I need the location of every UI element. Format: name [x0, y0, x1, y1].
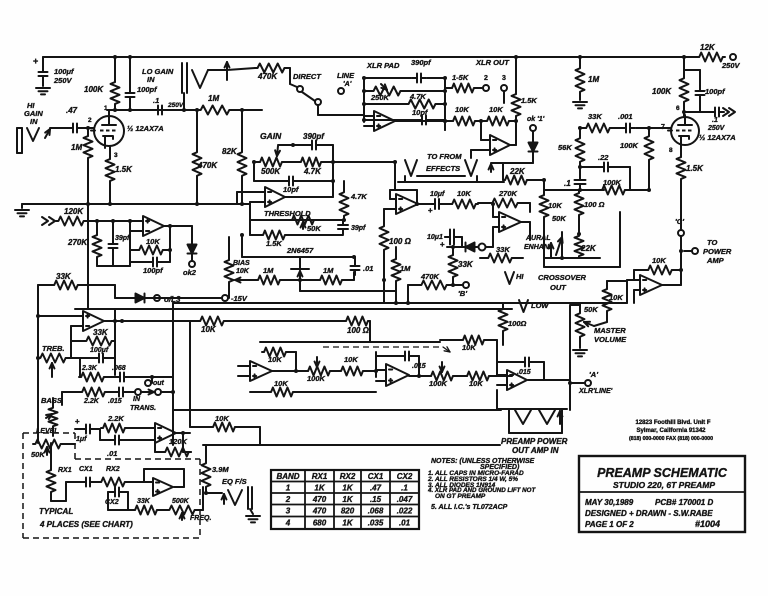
svg-text:10K: 10K — [469, 379, 483, 388]
svg-text:1K: 1K — [342, 484, 353, 493]
svg-text:4.7K: 4.7K — [303, 167, 322, 176]
svg-text:+: + — [75, 417, 80, 426]
svg-text:390pf: 390pf — [411, 58, 432, 67]
svg-text:1M: 1M — [400, 264, 411, 273]
svg-text:1M: 1M — [263, 266, 274, 275]
svg-text:10K: 10K — [548, 201, 562, 210]
svg-text:RX2: RX2 — [106, 466, 120, 473]
svg-text:1M: 1M — [71, 143, 82, 152]
svg-text:BIAS: BIAS — [233, 260, 250, 267]
svg-text:OUT AMP IN: OUT AMP IN — [512, 446, 559, 455]
svg-text:100pf: 100pf — [143, 266, 164, 275]
svg-text:BAND: BAND — [276, 472, 299, 481]
svg-text:2.2K: 2.2K — [83, 398, 100, 405]
svg-text:3: 3 — [286, 507, 291, 516]
svg-text:1.5K: 1.5K — [686, 164, 704, 173]
svg-text:10K: 10K — [201, 325, 217, 334]
svg-text:10K: 10K — [268, 355, 282, 364]
svg-text:DIRECT: DIRECT — [293, 72, 322, 81]
svg-text:out: out — [153, 380, 165, 387]
svg-text:AURAL: AURAL — [525, 235, 551, 242]
svg-text:STUDIO 220, 6T PREAMP: STUDIO 220, 6T PREAMP — [613, 480, 715, 490]
svg-text:IN: IN — [133, 396, 141, 403]
svg-text:10K: 10K — [344, 355, 358, 364]
svg-text:AMP: AMP — [706, 256, 725, 265]
svg-text:270K: 270K — [498, 189, 518, 198]
svg-text:820: 820 — [341, 507, 355, 516]
svg-text:120K: 120K — [64, 207, 84, 216]
svg-text:250K: 250K — [370, 93, 390, 102]
svg-text:CROSSOVER: CROSSOVER — [538, 273, 587, 282]
svg-text:10K: 10K — [274, 379, 288, 388]
svg-text:10K: 10K — [455, 105, 469, 114]
svg-text:BASS: BASS — [41, 396, 62, 405]
svg-text:.1: .1 — [564, 179, 571, 188]
svg-text:-15V: -15V — [231, 294, 248, 303]
svg-text:PCB# 170001 D: PCB# 170001 D — [655, 498, 713, 507]
svg-text:250V: 250V — [721, 61, 741, 70]
svg-text:1K: 1K — [342, 495, 353, 504]
svg-text:Sylmar, California 91342: Sylmar, California 91342 — [636, 428, 706, 434]
svg-text:50K: 50K — [584, 305, 598, 314]
svg-text:12823 Foothill Blvd. Unit F: 12823 Foothill Blvd. Unit F — [635, 420, 710, 426]
svg-text:2.3K: 2.3K — [81, 365, 98, 372]
svg-text:DESIGNED + DRAWN - S.W.RABE: DESIGNED + DRAWN - S.W.RABE — [585, 509, 713, 518]
svg-text:1μf: 1μf — [76, 436, 87, 443]
svg-text:100K: 100K — [307, 374, 326, 383]
svg-text:TYPICAL: TYPICAL — [39, 507, 73, 516]
svg-text:.01: .01 — [399, 519, 411, 528]
svg-text:RX2: RX2 — [340, 472, 356, 481]
svg-text:ENHAN.: ENHAN. — [524, 244, 551, 251]
svg-text:100 Ω: 100 Ω — [347, 326, 370, 335]
svg-text:XLR'LINE': XLR'LINE' — [578, 388, 613, 395]
svg-text:IN: IN — [30, 117, 38, 126]
svg-text:.15: .15 — [370, 495, 382, 504]
svg-text:470K: 470K — [197, 161, 218, 170]
svg-text:100K: 100K — [620, 141, 639, 150]
svg-text:RX1: RX1 — [312, 472, 328, 481]
svg-text:'A': 'A' — [343, 81, 352, 88]
svg-text:.1: .1 — [401, 484, 408, 493]
svg-text:MASTER: MASTER — [594, 326, 626, 335]
svg-text:.068: .068 — [112, 365, 126, 372]
svg-text:39pf: 39pf — [351, 225, 366, 232]
svg-text:100 Ω: 100 Ω — [389, 237, 412, 246]
svg-text:1.5K: 1.5K — [521, 96, 537, 105]
svg-text:33K: 33K — [458, 260, 474, 269]
svg-text:VOLUME: VOLUME — [594, 335, 627, 344]
svg-text:TO FROM: TO FROM — [427, 152, 462, 161]
svg-text:100μf: 100μf — [54, 67, 75, 76]
svg-text:'B': 'B' — [458, 289, 467, 298]
svg-text:1K: 1K — [342, 519, 353, 528]
svg-text:CX1: CX1 — [368, 472, 384, 481]
svg-text:500K: 500K — [261, 167, 281, 176]
svg-text:XLR PAD: XLR PAD — [366, 61, 400, 70]
svg-text:39pf: 39pf — [115, 235, 130, 242]
svg-text:4.7K: 4.7K — [350, 192, 367, 201]
svg-text:1.5K: 1.5K — [115, 165, 133, 174]
svg-text:470: 470 — [312, 507, 327, 516]
svg-text:.1: .1 — [712, 117, 718, 124]
svg-text:50K: 50K — [31, 450, 45, 459]
svg-text:10pf: 10pf — [412, 108, 429, 117]
svg-text:1: 1 — [286, 484, 291, 493]
svg-text:+: + — [428, 206, 433, 215]
svg-text:470K: 470K — [257, 72, 278, 81]
svg-text:50K: 50K — [307, 224, 321, 233]
svg-text:'C': 'C' — [675, 217, 684, 226]
svg-text:10K: 10K — [489, 105, 503, 114]
svg-text:100 Ω: 100 Ω — [584, 200, 605, 209]
svg-text:100μf: 100μf — [90, 347, 109, 354]
svg-text:33K: 33K — [56, 272, 72, 281]
svg-text:22K: 22K — [509, 167, 526, 176]
svg-text:.22: .22 — [598, 153, 609, 162]
svg-text:10K: 10K — [609, 293, 623, 302]
svg-text:RX1: RX1 — [58, 467, 72, 474]
svg-text:100pf: 100pf — [705, 87, 726, 96]
svg-text:100K: 100K — [84, 85, 104, 94]
svg-text:.047: .047 — [397, 495, 413, 504]
svg-text:1-5K: 1-5K — [452, 73, 469, 82]
svg-text:470K: 470K — [420, 272, 440, 281]
svg-text:33K: 33K — [93, 328, 109, 337]
svg-text:470: 470 — [312, 495, 327, 504]
svg-text:½ 12AX7A: ½ 12AX7A — [699, 133, 736, 142]
svg-text:IN: IN — [147, 75, 155, 84]
svg-text:120K: 120K — [169, 437, 188, 446]
svg-text:2N6457: 2N6457 — [286, 246, 314, 255]
svg-text:10K: 10K — [457, 189, 471, 198]
svg-text:.015: .015 — [108, 398, 122, 405]
svg-text:4: 4 — [285, 519, 291, 528]
svg-text:PREAMP SCHEMATIC: PREAMP SCHEMATIC — [597, 466, 728, 480]
svg-text:2: 2 — [88, 117, 92, 124]
svg-text:100Ω: 100Ω — [508, 319, 527, 328]
svg-text:680: 680 — [313, 519, 327, 528]
svg-text:5. ALL I.C.'s TL072ACP: 5. ALL I.C.'s TL072ACP — [431, 504, 508, 511]
svg-text:POWER: POWER — [703, 247, 732, 256]
svg-text:4 PLACES (SEE CHART): 4 PLACES (SEE CHART) — [39, 520, 133, 529]
svg-text:10K: 10K — [146, 237, 160, 246]
svg-text:TRANS.: TRANS. — [130, 405, 156, 412]
svg-text:33K: 33K — [137, 498, 151, 505]
svg-text:CX1: CX1 — [79, 466, 93, 473]
svg-text:10pf: 10pf — [283, 185, 300, 194]
svg-text:2: 2 — [484, 75, 488, 82]
svg-text:10μf: 10μf — [430, 191, 445, 198]
svg-text:THRESHOLD: THRESHOLD — [264, 209, 311, 218]
svg-text:250V: 250V — [167, 102, 184, 109]
svg-text:1M: 1M — [208, 94, 219, 103]
svg-text:2.2K: 2.2K — [107, 414, 124, 423]
svg-text:.47: .47 — [66, 106, 78, 115]
svg-text:10K: 10K — [215, 414, 229, 423]
svg-text:.035: .035 — [368, 519, 384, 528]
svg-text:PREAMP POWER: PREAMP POWER — [501, 437, 568, 446]
svg-text:100K: 100K — [603, 178, 622, 187]
svg-text:270K: 270K — [67, 238, 88, 247]
svg-text:TO: TO — [707, 238, 717, 247]
svg-text:PAGE 1 OF 2: PAGE 1 OF 2 — [585, 520, 634, 529]
svg-text:.001: .001 — [618, 112, 633, 121]
svg-text:.022: .022 — [397, 507, 413, 516]
svg-text:ok2: ok2 — [183, 268, 197, 277]
svg-text:10K: 10K — [652, 256, 666, 265]
svg-text:12K: 12K — [700, 43, 716, 52]
svg-text:#1004: #1004 — [695, 519, 720, 529]
svg-text:10K: 10K — [236, 268, 250, 275]
svg-text:.01: .01 — [107, 449, 117, 458]
svg-text:3: 3 — [502, 75, 506, 82]
svg-text:.1: .1 — [153, 96, 159, 105]
svg-text:EFFECTS: EFFECTS — [426, 164, 460, 173]
svg-text:100K: 100K — [652, 87, 672, 96]
svg-text:+: + — [440, 240, 445, 249]
svg-text:OUT: OUT — [550, 283, 567, 292]
svg-text:ok '1': ok '1' — [527, 116, 545, 123]
svg-text:390pf: 390pf — [303, 132, 325, 141]
svg-text:(818) 000-0000 FAX (818) 00: (818) 000-0000 FAX (818) 000-0000 — [629, 436, 713, 442]
svg-text:22K: 22K — [580, 244, 597, 253]
svg-text:1K: 1K — [314, 484, 325, 493]
svg-text:1M: 1M — [323, 266, 334, 275]
svg-text:8: 8 — [669, 147, 673, 154]
svg-text:1M: 1M — [588, 75, 599, 84]
svg-text:3.9M: 3.9M — [212, 465, 229, 474]
svg-text:EQ F/S: EQ F/S — [222, 477, 247, 486]
svg-text:MAY 30,1989: MAY 30,1989 — [585, 498, 634, 507]
svg-text:100K: 100K — [429, 379, 448, 388]
svg-text:100pf: 100pf — [137, 85, 158, 94]
svg-text:CX2: CX2 — [397, 472, 413, 481]
svg-text:500K: 500K — [172, 498, 190, 505]
svg-text:6: 6 — [676, 105, 680, 112]
svg-text:2: 2 — [285, 495, 291, 504]
svg-text:3: 3 — [114, 152, 118, 159]
svg-text:33K: 33K — [588, 112, 602, 121]
svg-text:10K: 10K — [462, 343, 476, 352]
svg-text:.01: .01 — [363, 264, 373, 273]
svg-text:33K: 33K — [496, 245, 510, 254]
svg-text:1.5K: 1.5K — [266, 239, 282, 248]
svg-text:LEVEL: LEVEL — [36, 428, 59, 435]
svg-text:HI: HI — [516, 272, 524, 281]
svg-text:82K: 82K — [222, 147, 238, 156]
svg-text:XLR OUT: XLR OUT — [475, 58, 510, 67]
svg-text:LINE: LINE — [337, 71, 355, 80]
svg-text:+: + — [33, 56, 38, 66]
svg-text:250V: 250V — [53, 76, 73, 85]
svg-text:ON GT PREAMP: ON GT PREAMP — [435, 493, 486, 500]
svg-text:.068: .068 — [368, 507, 384, 516]
svg-text:FREQ.: FREQ. — [190, 515, 211, 522]
svg-text:250V: 250V — [707, 125, 726, 132]
svg-text:½ 12AX7A: ½ 12AX7A — [127, 124, 164, 133]
svg-text:56K: 56K — [558, 143, 572, 152]
svg-text:'A': 'A' — [589, 370, 598, 379]
svg-text:50K: 50K — [552, 214, 566, 223]
svg-text:TREB.: TREB. — [42, 344, 65, 353]
svg-text:4.7K: 4.7K — [409, 92, 426, 101]
svg-text:GAIN: GAIN — [260, 131, 282, 141]
svg-text:.47: .47 — [370, 484, 382, 493]
